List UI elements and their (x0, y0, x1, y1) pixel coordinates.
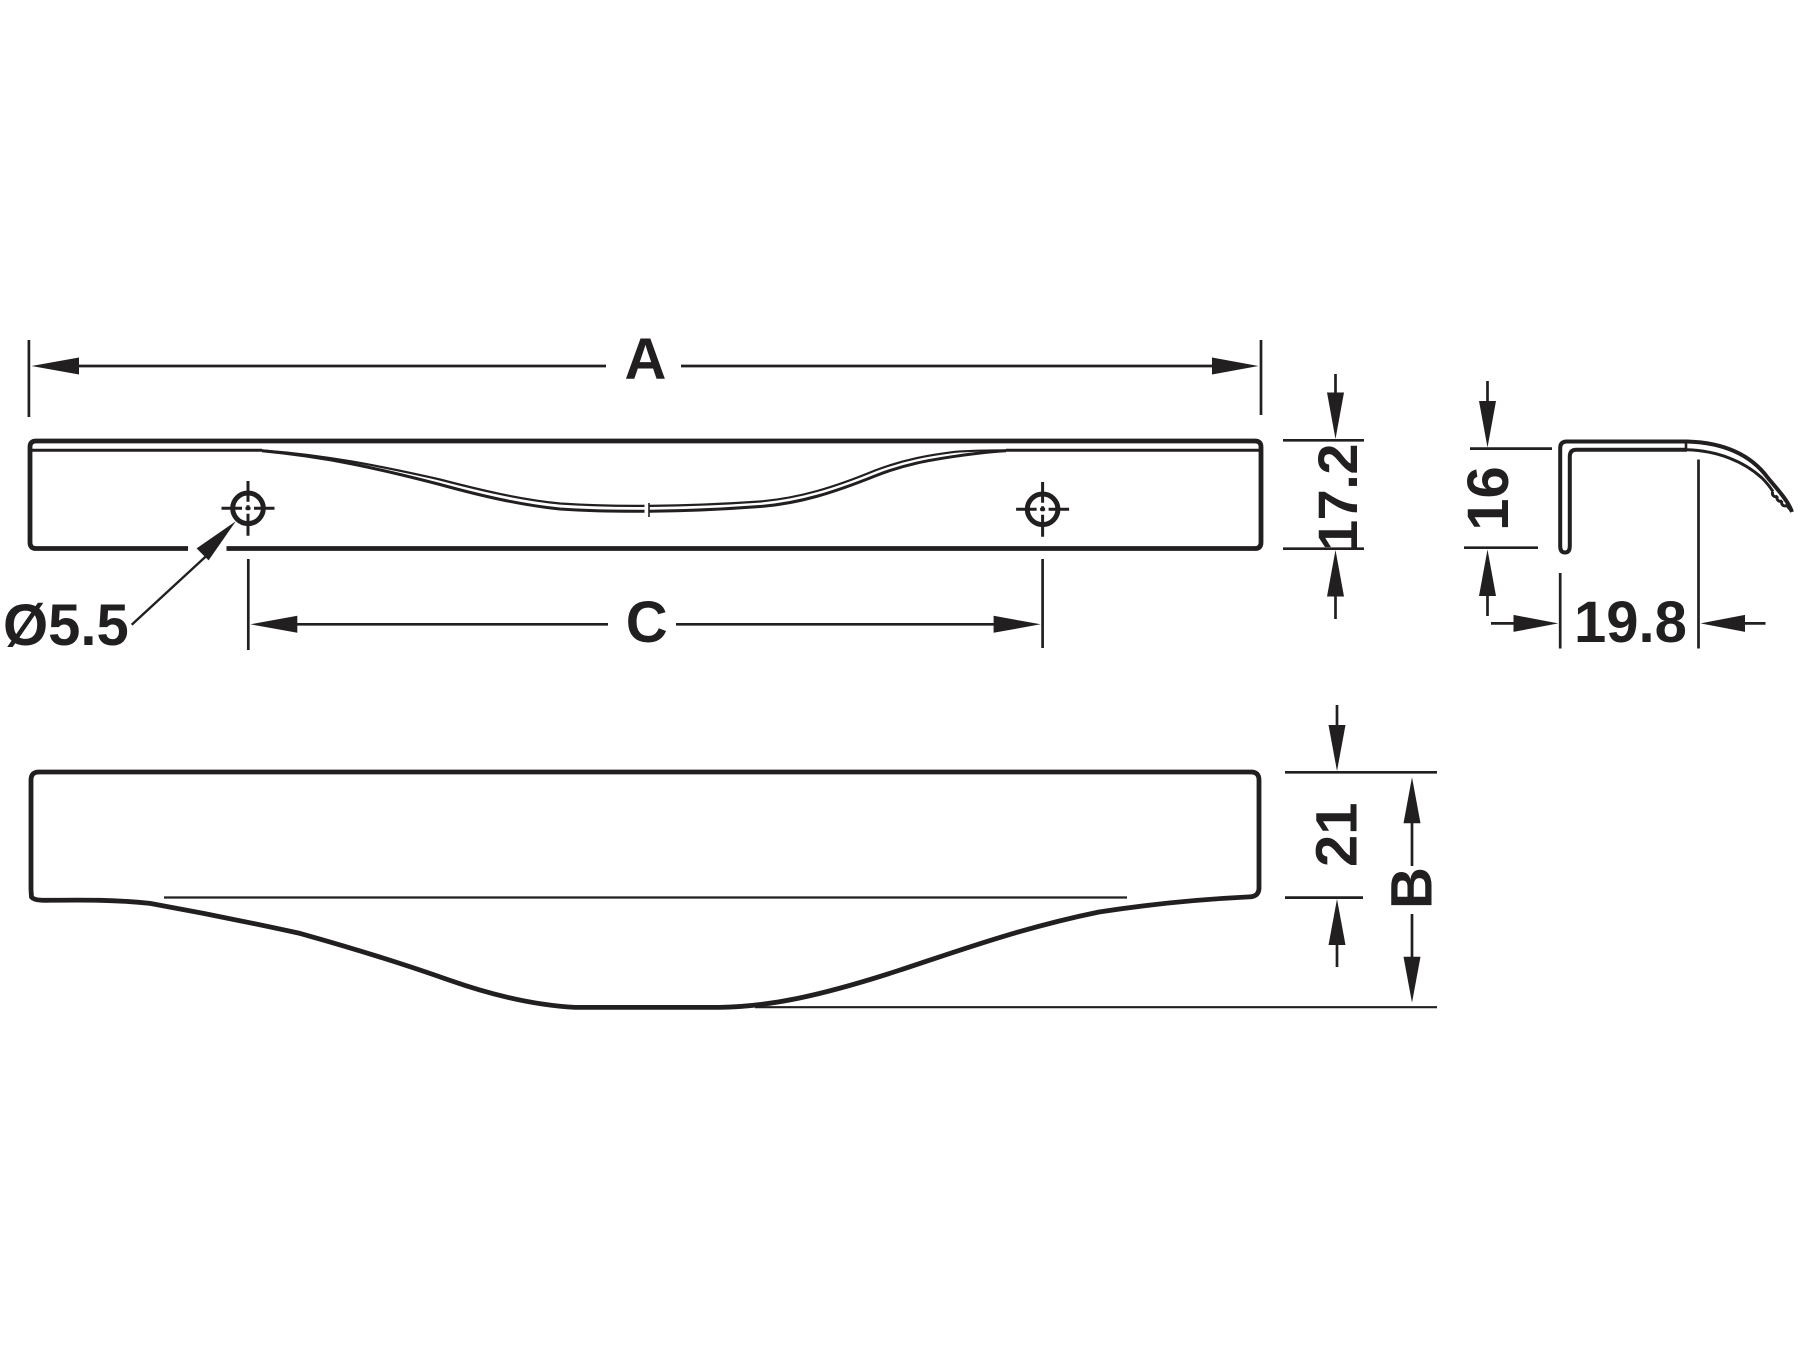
dim C right arrow (994, 616, 1041, 633)
dim 21 up arrow (1329, 899, 1346, 945)
front view fold line left (32, 449, 262, 452)
side profile leg (U channel) (1560, 442, 1687, 553)
dim 21 bottom tick (1285, 896, 1363, 899)
dim B down arrow (1404, 957, 1421, 1003)
svg-text:C: C (626, 590, 668, 655)
dim A left arrow (32, 358, 80, 375)
bottom view rear edge thin line (164, 896, 1127, 898)
hole leader line (132, 554, 209, 625)
side profile cut mark (1685, 440, 1688, 451)
dim A left extension line (28, 340, 31, 417)
dim 19.8 left arrow (1491, 622, 1514, 625)
svg-text:21: 21 (1305, 802, 1370, 867)
front view scoop lower curve (262, 451, 1006, 512)
dim 17.2 bottom arrow (1327, 550, 1344, 597)
dim 17.2 top arrow (1334, 374, 1337, 393)
dim 16 bottom tick (1464, 546, 1538, 549)
dim C left arrow (250, 616, 297, 633)
dim A right extension line (1260, 340, 1263, 415)
front view scoop upper curve (262, 450, 1006, 506)
left hole crosshair (222, 481, 275, 536)
dim 16 bottom arrow (1479, 550, 1496, 597)
dim 21 down arrow (1336, 705, 1339, 726)
side profile break squiggle tip (1772, 492, 1790, 511)
right hole ring (1027, 494, 1058, 525)
dim 17.2 top tick (1283, 439, 1364, 442)
handle front view body outline (30, 441, 1261, 549)
dim C line (297, 623, 996, 626)
svg-text:17.2: 17.2 (1306, 444, 1369, 551)
dim C right extension line (1041, 559, 1044, 648)
dim 19.8 right arrow (1701, 615, 1746, 632)
dim A right arrow (1212, 358, 1259, 375)
scoop center joint tick (648, 503, 650, 517)
side profile outer curve (1687, 442, 1792, 513)
dim 16 top arrow (1486, 381, 1489, 402)
right hole crosshair (1016, 482, 1069, 537)
front view fold line right (1006, 449, 1259, 452)
dim C left extension line (247, 559, 250, 650)
dim 19.8 left extension line (1559, 573, 1562, 649)
svg-text:19.8: 19.8 (1574, 590, 1687, 655)
dim 17.2 bottom tick (1283, 547, 1364, 550)
left hole ring (233, 493, 264, 524)
svg-text:B: B (1380, 867, 1445, 909)
svg-text:Ø5.5: Ø5.5 (3, 593, 129, 658)
svg-text:A: A (625, 327, 667, 392)
side profile inner curve (1687, 450, 1773, 492)
svg-text:16: 16 (1456, 466, 1521, 531)
dim 19.8 right extension line (1697, 460, 1700, 649)
dim B up arrow (1404, 777, 1421, 823)
dim 16 top tick (1470, 447, 1552, 450)
dim 21 top tick (1285, 771, 1437, 774)
hole leader arrow (197, 521, 236, 560)
dim A line (79, 365, 1213, 368)
dim B line (1411, 822, 1414, 958)
bottom view scoop edge thin line and B extension (755, 1006, 1437, 1008)
bottom view outline with sweep (31, 772, 1259, 1007)
